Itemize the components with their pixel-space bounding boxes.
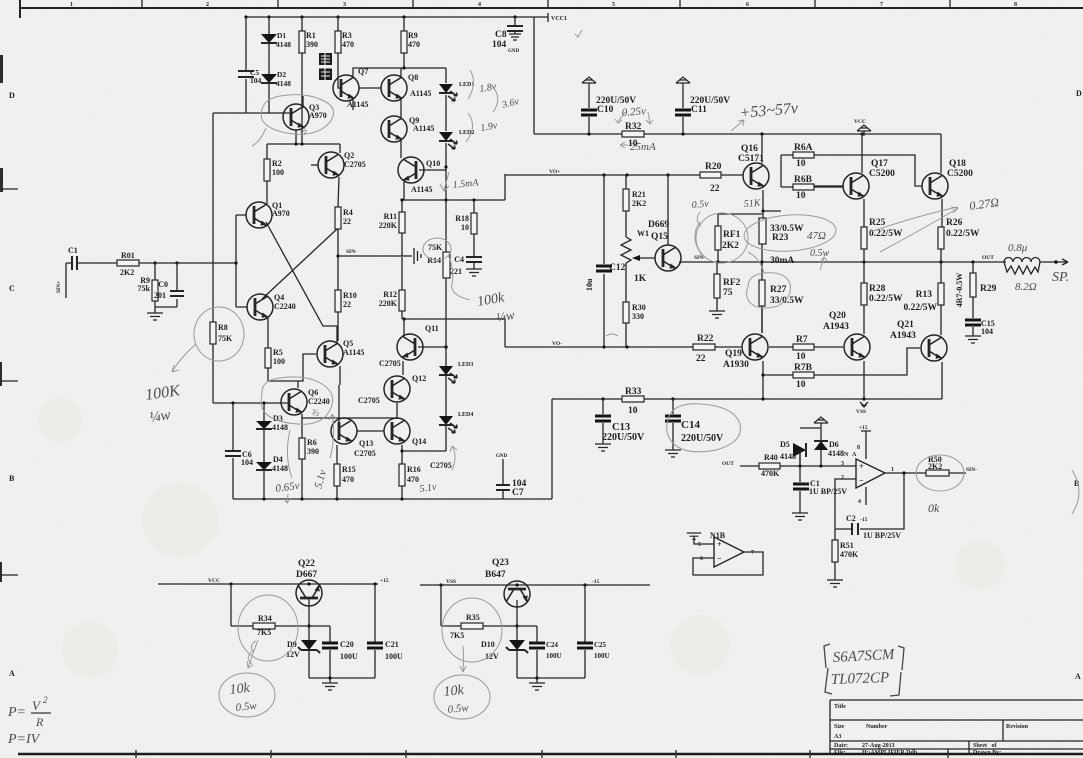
wire mirror rail y144 [267, 143, 340, 145]
transistor Q18 [922, 173, 948, 199]
wire Q1 Q4 base column [236, 215, 247, 307]
wire VO+ rail [505, 174, 700, 176]
resistor R01 [117, 260, 139, 266]
wire Q12 collector to Q11 [402, 361, 404, 375]
capacitor C21 [374, 584, 376, 678]
annotation 10k 0.5w right [434, 675, 490, 719]
annotation pencil circle C14 [667, 404, 741, 452]
transistor Q13 [331, 418, 357, 444]
wire VSS bus y399 [552, 398, 942, 400]
capacitor C4 [466, 257, 482, 262]
wire R10 to Q5 [337, 312, 339, 341]
transistor Q12 [384, 376, 410, 402]
node VCC1 [547, 13, 549, 22]
resistor RF1 [718, 214, 762, 262]
resistor R27 [761, 262, 763, 333]
wire cross diagonal A [266, 222, 338, 326]
diode D6 [820, 428, 822, 466]
resistor R6B [781, 186, 843, 188]
resistor R22 [693, 344, 715, 350]
wire LED3 LED4 column [402, 347, 446, 451]
wire W1 wiper to Q15 base [638, 257, 655, 259]
transistor Q20 [844, 334, 870, 360]
wire OUT mid rail [679, 261, 1006, 263]
capacitor C5 [238, 71, 254, 77]
annotation 1.5mA [440, 172, 449, 191]
annotation pencil blob R27 [747, 252, 791, 308]
resistor R7B [763, 348, 920, 375]
transistor Q17 [843, 173, 869, 199]
capacitor C11 [676, 77, 690, 88]
wire Q11 base to LED chain [418, 346, 446, 348]
wire Q6 emitter node [302, 414, 397, 438]
capacitor C12 [603, 175, 605, 347]
transistor Q5 [317, 341, 343, 367]
diode D2 [261, 74, 277, 83]
wire Q2 emitter to R4 [338, 177, 339, 207]
wire Q4 emitter to R5 [267, 318, 269, 348]
wire VCC psu rail [158, 583, 378, 585]
diode D5 [800, 428, 821, 466]
resistor zobel zigzag [1004, 262, 1040, 274]
resistor R2 [264, 159, 270, 181]
wire Q9 emitter to Q10 collector [400, 140, 402, 158]
annotation pencil arc right edge [1072, 470, 1079, 514]
capacitor C1 input [72, 256, 77, 270]
annotation check mark [575, 30, 582, 37]
ground psu1 [329, 678, 331, 683]
wire Q15 collector [667, 175, 669, 245]
annotation pencil blob Q6 [261, 377, 333, 424]
wire Q16 emitter node [763, 155, 781, 218]
resistor R16 [401, 445, 403, 499]
led LED1 [439, 84, 457, 101]
transistor Q11 [397, 334, 423, 360]
resistor R5 [265, 348, 271, 368]
wire psu2 bottom [517, 677, 585, 679]
resistor R34 [231, 584, 330, 626]
transistor Q9 [381, 116, 407, 142]
resistor R1 [301, 17, 303, 144]
wire R3 to Q7 base [338, 80, 341, 88]
ground input [155, 307, 177, 313]
resistor R26 [938, 227, 944, 249]
capacitor C1 feedback [799, 450, 801, 482]
wire Q22 base lead down [308, 599, 310, 640]
wire Q11 emitter up [403, 319, 405, 335]
capacitor C25 [584, 585, 586, 678]
transistor Q16 [743, 163, 769, 189]
ground RF2 [709, 311, 725, 318]
transistor Q19 [742, 334, 768, 360]
resistor R6 [299, 438, 305, 459]
ground sideways near SIN- [402, 255, 412, 257]
resistor R12 [401, 257, 403, 319]
capacitor C10 [582, 77, 596, 88]
op-amp U1A [856, 459, 885, 488]
capacitor C24 [536, 626, 538, 678]
wire R4 to R10 [337, 229, 339, 290]
wire Q8 emitter to Q9 [400, 99, 402, 118]
wire VSS psu rail [420, 584, 650, 586]
resistor R23 [759, 218, 766, 244]
resistor R7 [769, 346, 843, 348]
led LED2 [439, 132, 457, 149]
wire VO- rail [505, 346, 693, 348]
power symbol above D6 [814, 417, 828, 428]
wire Q19 emitter down [762, 361, 764, 399]
led LED3 [439, 366, 457, 383]
led LED4 [439, 416, 457, 433]
transistor Q15 [655, 245, 681, 271]
wire Q21 emitter down [941, 362, 943, 399]
inductor L output [1004, 258, 1040, 263]
resistor R13 [940, 262, 942, 335]
transistor Q21 [921, 335, 947, 361]
wire VCC drop to lower rail [533, 17, 535, 134]
diode D3 [263, 403, 265, 462]
wire bus riser x552 [551, 399, 553, 499]
resistor R29 [972, 262, 974, 318]
wire input node [139, 262, 236, 264]
resistor R21 [625, 175, 627, 237]
annotation 1.9v LED2 [466, 113, 473, 142]
wire pin2 inverting input [835, 479, 856, 530]
wire Q7 emitter up rail y68 [353, 68, 446, 77]
resistor R9 input [154, 263, 156, 307]
annotation arrow to 10k left [247, 640, 258, 668]
wire Q18 emitter to R26 [941, 199, 943, 227]
sheet bottom border [18, 753, 1083, 756]
wire input stub SIN+ [66, 263, 72, 298]
transistor Q7 [333, 75, 359, 101]
resistor R51 [834, 530, 836, 580]
wire VCC1 top rail [246, 16, 548, 18]
wire LED chain top [445, 68, 447, 200]
wire psu1 bottom [309, 677, 375, 679]
wire D10 to bottom [516, 650, 518, 678]
title block border [830, 700, 1083, 755]
resistor R33 [622, 396, 644, 402]
annotation squiggle near R22 [606, 334, 618, 336]
potentiometer W1 [621, 237, 631, 263]
resistor R30 [625, 263, 627, 347]
wire Q7 to Q8 base [359, 87, 381, 89]
resistor R40 [759, 463, 780, 469]
wire rail junction dots [244, 15, 516, 18]
wire R22 to Q19 base [715, 346, 741, 348]
label pair-matching chinese [319, 53, 332, 80]
left edge scan streaks [0, 55, 3, 582]
resistor R8 [212, 113, 214, 403]
capacitor C0 [176, 263, 178, 307]
annotation pencil circle R8 [194, 307, 244, 361]
wire Q7 collector stub [352, 99, 354, 110]
wire C1 to R01 [77, 262, 117, 264]
resistor R50 [926, 470, 949, 476]
ground C1 [799, 491, 801, 513]
wire N1B feedback loop [693, 552, 763, 575]
wire Q19 collector to R27 [761, 306, 763, 333]
wire R6 to bus [301, 459, 303, 499]
left zone divider dashes [2, 189, 18, 575]
wire Q20 emitter down [863, 361, 865, 399]
capacitor C20 [329, 626, 331, 678]
wire R20 to Q16 base [721, 174, 743, 176]
annotation 3.6v brace [493, 88, 498, 112]
ground C4 [473, 262, 475, 269]
wire R5 to Q5 base [268, 354, 316, 381]
transistor Q14 [384, 418, 410, 444]
wire Q10 emitter down [403, 182, 405, 200]
resistor R14 [445, 200, 447, 347]
annotation pencil circle Q3 [252, 95, 334, 146]
resistor R6A [781, 155, 922, 186]
resistor R28 [863, 262, 865, 334]
wire VCC mid rail y134 [534, 133, 941, 135]
capacitor C8 [514, 17, 516, 34]
wire Q12 emitter to Q14 collector [396, 403, 398, 419]
wire Q8 collector [400, 68, 402, 77]
wire C5 branch vertical [245, 17, 247, 113]
wire Q16 collector [761, 134, 763, 163]
sheet top border ticks [142, 0, 950, 8]
annotation pencil circle 75K R14 [423, 238, 451, 260]
annotation arrow to 10k right [460, 646, 466, 672]
wire Q1 collector to R2 [266, 181, 268, 204]
sheet bottom border ticks [136, 749, 948, 758]
resistor RF2 [716, 262, 718, 311]
wire D9 to bottom [308, 650, 310, 678]
capacitor C14 [672, 399, 674, 450]
wire Q17 base [814, 185, 843, 187]
transistor Q4 [247, 294, 273, 320]
annotation pencil circle R34 [238, 595, 298, 661]
node SIN- feedback [338, 255, 402, 257]
resistor R11 [401, 200, 403, 256]
annotation 0k near R50 [916, 455, 964, 491]
wire Q10 base to LED column [419, 169, 446, 171]
annotation pencil circle R35 [442, 598, 502, 662]
resistor R18 [473, 200, 475, 256]
transistor Q2 [318, 152, 344, 178]
transistor Q3 [283, 104, 309, 130]
diode D4 [263, 470, 265, 499]
transistor Q22 [296, 580, 322, 606]
wire cross diagonal B [262, 229, 337, 299]
annotation pencil circle R23 [743, 212, 837, 254]
transistor Q10 [398, 157, 424, 183]
wire D1 D2 branch vertical [268, 17, 270, 113]
capacitor C2 [852, 523, 858, 535]
wire Q17 emitter to R25 [863, 199, 865, 227]
wire opamp output [885, 472, 966, 474]
top zone numbers [70, 2, 1017, 8]
resistor R10 [335, 290, 341, 312]
capacitor C13 [602, 399, 604, 444]
ground N1B input [687, 533, 701, 539]
wire Q5 emitter down [339, 366, 341, 385]
wire bottom bus y499 [233, 498, 552, 500]
wire Q13 to Q14 base [357, 430, 384, 432]
transistor Q8 [381, 75, 407, 101]
wire lower left rail y403 [213, 402, 288, 404]
diode D10 zener [509, 640, 525, 650]
resistor R3 [337, 17, 339, 80]
wire branch to Q6 collector [297, 381, 299, 388]
resistor R15 [336, 445, 338, 499]
wire Q3 base rail y113 [213, 112, 291, 114]
ground psu2 [536, 678, 538, 683]
annotation 10k 0.5w left [219, 673, 275, 717]
sheet top border [20, 7, 1083, 9]
wire feedback line [740, 465, 856, 467]
resistor R32 [622, 131, 644, 137]
wire VO- upper jog [404, 319, 505, 347]
ground R51 [827, 580, 843, 587]
resistor R9b [403, 17, 405, 68]
diode D9 zener [301, 640, 317, 650]
wire Q2 collector stub [339, 144, 341, 153]
resistor R25 [861, 227, 867, 249]
wire pin4 to C2 loop [860, 473, 904, 529]
power symbol VSS [860, 402, 868, 407]
wire Q17 collector [861, 134, 863, 173]
ground GND below C8 [509, 34, 521, 40]
resistor R20 [700, 172, 721, 178]
wire Q2 base stub [311, 164, 318, 166]
wire R2 top to mirror rail [266, 144, 268, 159]
resistor R4 [335, 207, 341, 229]
wire Q3 emitter stub [302, 96, 304, 108]
wire Q3 collector [295, 130, 297, 144]
resistor R35 [441, 585, 537, 626]
transistor Q23 [504, 581, 530, 607]
wire Q5 collector [336, 326, 338, 343]
capacitor C15 [965, 320, 981, 325]
wire speaker out arrow [1040, 259, 1068, 265]
wire y200 link [402, 174, 505, 200]
wire Q13 base from Q5 [338, 385, 340, 424]
diode D1 [261, 34, 277, 43]
annotation pencil circle RF1 [696, 213, 748, 263]
transistor Q1 [246, 202, 272, 228]
left border corner [19, 0, 21, 18]
capacitor C6 [232, 403, 234, 499]
wire Q23 base lead down [516, 600, 518, 640]
wire Q18 collector from rail corner [940, 134, 942, 173]
transistor Q6 [281, 389, 307, 415]
paper mottling [38, 398, 1005, 678]
annotation 1.8v LED1 [468, 70, 474, 99]
